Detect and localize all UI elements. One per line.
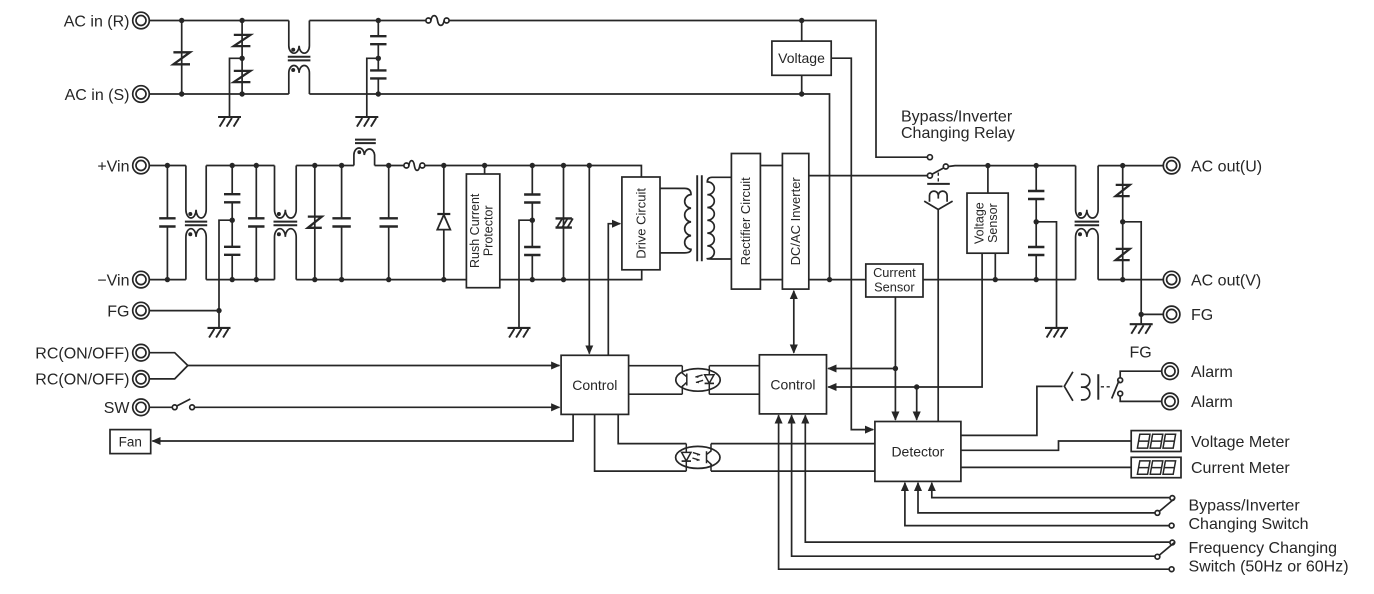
transformer T1 core	[697, 175, 702, 261]
varistor Z3	[308, 166, 322, 280]
node C8 midpoint	[1034, 219, 1039, 224]
block DC/AC Inverter	[782, 154, 808, 290]
terminal FG out	[1163, 306, 1180, 323]
wire Control 1 to opto2 bottom	[595, 414, 687, 471]
wire -Vin rail 3	[296, 279, 466, 281]
wire -Vin rail 4	[500, 270, 642, 280]
node Z4 midpoint	[1120, 219, 1125, 224]
wire opto1 left top	[629, 365, 683, 367]
terminal Alarm 1	[1162, 363, 1179, 380]
wire opto2 right top	[711, 443, 875, 445]
terminal RC(ON/OFF) 2	[133, 371, 150, 388]
svg-text:AC out(V): AC out(V)	[1191, 272, 1261, 289]
capacitor C2	[159, 166, 175, 280]
wire AC out V rail 2	[1098, 279, 1164, 281]
svg-text:DC/AC Inverter: DC/AC Inverter	[788, 177, 803, 266]
wire C8 mid to ground	[1036, 222, 1056, 328]
wire opto1 right bottom	[709, 393, 759, 395]
wire +Vin rail 2	[206, 165, 274, 167]
node +Vin C2	[165, 163, 170, 168]
node S-V1	[179, 91, 184, 96]
svg-text:FG: FG	[1130, 345, 1152, 362]
svg-text:Control: Control	[572, 377, 617, 393]
wire Control 1 to opto2 top	[618, 414, 686, 443]
node voltage sense branch	[914, 384, 919, 389]
block Detector	[875, 422, 961, 482]
wire inverter to relay contact	[809, 175, 928, 177]
wire Control 1 to Fan	[152, 414, 573, 441]
svg-text:AC out(U): AC out(U)	[1191, 158, 1262, 175]
node S-C1	[376, 91, 381, 96]
wire opto1 right top	[709, 365, 759, 367]
node S-Voltage	[799, 91, 804, 96]
node V C8	[1034, 277, 1039, 282]
wire relay coil to detector	[937, 210, 939, 422]
common-mode choke L3	[274, 166, 298, 280]
wire AC out U rail 2	[1098, 165, 1164, 167]
switch SW contact a	[172, 405, 177, 410]
wire current sensor to junction	[894, 297, 896, 369]
relay coil winding	[930, 191, 948, 202]
block Control 2	[759, 355, 826, 414]
wire AC R rail	[149, 20, 289, 22]
frequency switch lever	[1160, 543, 1175, 555]
terminal +Vin	[133, 157, 150, 174]
surge arrester (hatched)	[556, 166, 573, 280]
wire frequency switch row 2	[792, 415, 1155, 556]
voltage meter display	[1131, 431, 1181, 452]
node current sensor branch	[893, 366, 898, 371]
block Voltage Sensor	[967, 193, 1008, 253]
optocoupler PC2	[676, 444, 720, 472]
capacitor C3a	[224, 166, 240, 221]
wire +Vin rail	[149, 165, 186, 167]
capacitor C3b	[224, 220, 240, 279]
node +Vin D1	[441, 163, 446, 168]
capacitor C8b	[1028, 222, 1044, 280]
wire +V rail to Control 1	[588, 166, 590, 354]
node +Vin C6	[386, 163, 391, 168]
node R-C1	[376, 18, 381, 23]
bypass switch contact 3	[1169, 523, 1174, 528]
block Control 1	[561, 355, 629, 414]
block Drive Circuit	[622, 177, 660, 270]
capacitor C8a	[1028, 166, 1044, 222]
common-mode choke L1 (AC in)	[288, 21, 311, 95]
wire AC R rail 2	[309, 20, 426, 22]
current meter display	[1131, 457, 1181, 477]
node U Z4	[1120, 163, 1125, 168]
wire voltage sense to Control 2	[828, 386, 917, 388]
bypass switch contact 1	[1170, 496, 1175, 501]
wire +Vin rail 5	[425, 166, 642, 178]
wire bypass switch row 2	[918, 483, 1155, 513]
wire inverter output rail	[809, 279, 866, 281]
wire alarm contact 2	[1120, 396, 1162, 401]
wire current sense to Control 2	[828, 368, 895, 370]
wire detector to alarm relay	[961, 386, 1063, 435]
wire voltage sensor right pin	[994, 253, 996, 279]
wire Z2 mid to ground	[230, 58, 243, 117]
wire detector to voltage meter	[961, 441, 1131, 450]
wire voltage sensor left pin	[917, 253, 982, 387]
wire current sense to Detector	[894, 369, 896, 420]
svg-text:Alarm: Alarm	[1191, 364, 1233, 381]
svg-text:Frequency ChangingSwitch (50Hz: Frequency ChangingSwitch (50Hz or 60Hz)	[1189, 540, 1349, 576]
inductor L4 (series choke)	[354, 140, 376, 166]
frequency switch contact 3	[1169, 567, 1174, 572]
varistor Z4b	[1116, 222, 1130, 280]
wire SW lead	[149, 406, 172, 408]
wire rush current protector stub	[484, 166, 486, 175]
svg-text:AC in (S): AC in (S)	[65, 87, 130, 104]
wire SW lever	[177, 399, 191, 406]
wire AC R rail 3	[449, 21, 928, 158]
wire rectifier-inverter bottom	[760, 279, 782, 281]
node R-V2	[239, 18, 244, 23]
fuse F2	[404, 161, 425, 171]
node C1 midpoint	[376, 56, 381, 61]
transformer T1 primary	[660, 188, 691, 253]
node C3 midpoint	[230, 218, 235, 223]
wire C3 mid to FG ground	[219, 220, 232, 328]
node FG junction	[216, 308, 221, 313]
wire detector to current meter	[961, 466, 1131, 468]
capacitor C4	[248, 166, 264, 280]
wire relay lever	[932, 168, 944, 174]
ground converter	[508, 328, 531, 338]
varistor Z1	[173, 21, 190, 95]
wire Voltage box bottom pin	[801, 75, 803, 94]
wire AC out U rail	[948, 165, 1075, 168]
wire -Vin rail 2	[206, 279, 274, 281]
capacitor C1a	[370, 21, 386, 59]
node V voltage sensor	[993, 277, 998, 282]
wire FG lead	[149, 310, 219, 312]
capacitor C1b	[370, 58, 386, 94]
wire opto2 right bottom	[711, 470, 875, 472]
svg-text:−Vin: −Vin	[97, 272, 129, 289]
wire Z4 mid to FG	[1123, 222, 1142, 324]
wire frequency switch row 3	[779, 415, 1169, 569]
relay coil bar	[927, 183, 950, 185]
svg-text:Bypass/InverterChanging Relay: Bypass/InverterChanging Relay	[901, 109, 1015, 143]
frequency switch contact 1	[1170, 540, 1175, 545]
capacitor C5	[332, 166, 350, 280]
svg-text:+Vin: +Vin	[97, 158, 129, 175]
svg-text:SW: SW	[104, 400, 131, 417]
svg-text:Fan: Fan	[119, 435, 142, 450]
varistor Z2b	[234, 58, 251, 94]
wire Voltage box output	[831, 58, 873, 429]
wire AC S rail 2	[309, 94, 829, 280]
svg-text:Detector: Detector	[891, 443, 944, 459]
alarm relay chevron	[1064, 372, 1073, 401]
node R-V1	[179, 18, 184, 23]
wire output rail to voltage sensor	[923, 279, 1076, 281]
transformer T1 secondary	[707, 177, 731, 259]
capacitor C7b	[524, 220, 540, 279]
node -Vin C2	[165, 277, 170, 282]
node control feed	[587, 163, 592, 168]
wire C7 mid to ground	[519, 220, 532, 328]
block Voltage	[772, 41, 831, 75]
wire opto1 left bottom	[629, 393, 683, 395]
node +Vin C3	[230, 163, 235, 168]
alarm switch contact top	[1118, 378, 1123, 383]
wire voltage sensor top pin	[987, 166, 989, 194]
alarm switch contact bottom	[1118, 391, 1123, 396]
block Rush Current Protector	[466, 174, 499, 288]
wire SW to Control 1	[195, 406, 560, 408]
wire RC2 lead	[149, 366, 188, 379]
node -V C7	[530, 277, 535, 282]
svg-text:RC(ON/OFF): RC(ON/OFF)	[35, 372, 129, 389]
node R-Voltage	[799, 18, 804, 23]
wire frequency switch row 1	[805, 415, 1169, 542]
node +V arrester	[561, 163, 566, 168]
terminal RC(ON/OFF) 1	[133, 344, 150, 361]
node +V C7	[530, 163, 535, 168]
svg-text:FG: FG	[1191, 307, 1213, 324]
terminal AC in (S)	[133, 86, 150, 103]
node +Vin C5	[339, 163, 344, 168]
node +Vin Z3	[312, 163, 317, 168]
bypass switch lever	[1160, 499, 1175, 511]
ground FG input	[208, 328, 231, 338]
svg-text:RC(ON/OFF): RC(ON/OFF)	[35, 346, 129, 363]
terminal FG	[133, 302, 150, 319]
wire +Vin rail 4	[375, 165, 404, 167]
alarm relay dashed link	[1101, 386, 1111, 388]
node -Vin C5	[339, 277, 344, 282]
relay coil chevron	[924, 201, 952, 209]
svg-text:Voltage Meter: Voltage Meter	[1191, 434, 1290, 451]
optocoupler PC1	[676, 366, 720, 395]
wire FG out lead	[1141, 313, 1163, 315]
relay contact common output	[943, 164, 948, 169]
frequency switch contact 2	[1155, 554, 1160, 559]
node FG out junction	[1139, 312, 1144, 317]
svg-text:FG: FG	[107, 303, 129, 320]
svg-text:Alarm: Alarm	[1191, 394, 1233, 411]
ground output FG	[1130, 324, 1153, 334]
node rush stub	[482, 163, 487, 168]
wire AC S rail	[149, 93, 289, 95]
node S-V2	[239, 91, 244, 96]
wire rectifier-inverter top	[760, 165, 782, 167]
bypass switch contact 2	[1155, 511, 1160, 516]
svg-text:Control: Control	[770, 376, 815, 392]
block Current Sensor	[866, 264, 923, 297]
node +Vin C4	[254, 163, 259, 168]
node V Z4	[1120, 277, 1125, 282]
alarm switch lever	[1112, 381, 1119, 399]
wire -Vin rail	[149, 279, 186, 281]
terminal AC in (R)	[133, 12, 150, 29]
capacitor C6	[380, 166, 398, 280]
svg-text:Bypass/InverterChanging Switch: Bypass/InverterChanging Switch	[1189, 497, 1309, 533]
svg-text:Voltage: Voltage	[778, 50, 825, 66]
common-mode choke L2	[185, 166, 207, 280]
terminal -Vin	[133, 271, 150, 288]
ground AC filter 2	[355, 117, 378, 127]
varistor Z2a	[234, 21, 251, 59]
block Fan	[110, 430, 151, 454]
node -Vin D1	[441, 277, 446, 282]
fuse F1	[426, 16, 449, 26]
wire RC1 lead	[149, 353, 188, 366]
terminal AC out(U)	[1163, 157, 1180, 174]
svg-text:AC in (R): AC in (R)	[64, 13, 130, 30]
terminal AC out(V)	[1163, 271, 1180, 288]
common-mode choke L5 (AC out)	[1075, 166, 1100, 280]
svg-text:VoltageSensor: VoltageSensor	[972, 202, 1000, 244]
node -V arrester	[561, 277, 566, 282]
wire +Vin rail 3	[296, 165, 354, 167]
wire Control 1 to drive circuit	[608, 224, 620, 356]
diode D1	[437, 166, 450, 280]
node Z2 midpoint	[239, 56, 244, 61]
node S bypass junction	[827, 277, 832, 282]
ground AC filter 1	[218, 117, 241, 127]
node U voltage sensor	[985, 163, 990, 168]
wire bypass switch row 3	[905, 483, 1169, 526]
capacitor C7a	[524, 166, 540, 221]
svg-text:Drive Circuit: Drive Circuit	[633, 188, 648, 259]
wire C1 mid to ground	[367, 58, 379, 117]
relay contact inverter input	[927, 173, 932, 178]
svg-text:Rectifier Circuit: Rectifier Circuit	[738, 177, 753, 266]
varistor Z4a	[1116, 166, 1130, 222]
svg-text:Current Meter: Current Meter	[1191, 460, 1290, 477]
terminal SW	[133, 399, 150, 416]
wire voltage sense to Detector	[916, 387, 918, 420]
node -Vin Z3	[312, 277, 317, 282]
wire bypass switch row 1	[932, 483, 1170, 498]
alarm relay coil winding	[1081, 374, 1090, 400]
ground output filter	[1045, 328, 1068, 338]
node C7 midpoint	[530, 218, 535, 223]
alarm relay core bar	[1097, 374, 1099, 400]
node -Vin C6	[386, 277, 391, 282]
wire relay coil dashed link	[937, 173, 939, 184]
wire inverter to Control 2 (two-way)	[793, 291, 795, 353]
svg-text:CurrentSensor: CurrentSensor	[873, 265, 916, 295]
node -Vin C4	[254, 277, 259, 282]
terminal Alarm 2	[1162, 393, 1179, 410]
node -Vin C3	[230, 277, 235, 282]
node U C8	[1034, 163, 1039, 168]
switch SW contact b	[190, 405, 195, 410]
wire RC to Control 1	[188, 365, 560, 367]
wire alarm contact 1	[1120, 371, 1162, 378]
wire Voltage box top pin	[801, 21, 803, 42]
block Rectifier Circuit	[731, 154, 760, 290]
relay contact bypass input	[927, 155, 932, 160]
